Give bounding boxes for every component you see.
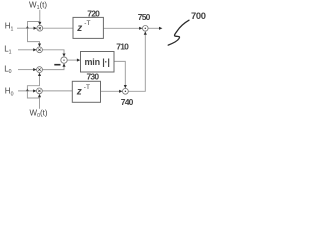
wire box 720 out to adder 750 [103, 27, 140, 29]
arrowhead into M1 left [34, 27, 37, 30]
arrowhead into subtractor bottom [62, 63, 65, 66]
wire H0 to M4 [18, 90, 34, 92]
wire box 730 out to adder 740 [101, 90, 121, 92]
arrowhead into adder 740 left [119, 90, 122, 93]
arrowhead into min box [77, 59, 80, 62]
multiplier M3 (L0 x W0) [37, 67, 43, 73]
wire M3 out to subtractor bottom [42, 66, 64, 70]
arrowhead W1 into M1 top [38, 22, 41, 25]
svg-text:750: 750 [138, 12, 151, 22]
arrowhead into M4 left [33, 89, 36, 92]
minus sign at subtractor [54, 64, 60, 66]
multiplier M2 (L1 x W1) [37, 47, 43, 53]
figure pointer squiggle 700 [168, 20, 189, 45]
min box 710 [81, 52, 115, 73]
svg-text:z: z [76, 87, 82, 98]
adder 740 [123, 88, 129, 94]
svg-text:min |·|: min |·| [85, 57, 110, 67]
svg-text:730: 730 [87, 71, 100, 81]
svg-text:-T: -T [84, 20, 90, 27]
wire L1 to M2 [18, 49, 34, 51]
wire M1 out to box 720 [43, 27, 73, 29]
arrowhead W0 into M4 bottom [38, 94, 41, 97]
wire W1 vertical into M1 [39, 10, 41, 23]
wire H1 to M1 [17, 27, 34, 29]
wire subtractor out to min box [67, 59, 78, 61]
arrowhead into M3 left [33, 68, 36, 71]
junction blob at branch crossing H1 line [26, 26, 29, 29]
wire L0 to M3 [18, 69, 34, 71]
wire 750 output [148, 27, 160, 29]
arrowhead into adder 740 top [124, 85, 127, 88]
svg-text:700: 700 [191, 10, 206, 21]
arrowhead branch into M3 bottom [38, 73, 41, 76]
subtractor node [61, 57, 67, 63]
multiplier M1 (H1 x W1) [37, 25, 43, 31]
wire W1 branch to M2 [28, 22, 40, 45]
svg-text:720: 720 [87, 9, 100, 19]
junction blob at branch crossing H0 line [26, 89, 29, 92]
svg-text:740: 740 [121, 97, 134, 107]
svg-text:710: 710 [116, 41, 129, 51]
wire W0 vertical into M4 [39, 96, 41, 108]
delay box 730 [72, 81, 100, 102]
wire M4 out to box 730 [42, 90, 72, 92]
delay box 720 [73, 17, 103, 38]
svg-text:z: z [76, 23, 82, 34]
arrowhead into subtractor top [62, 54, 65, 57]
svg-text:-T: -T [84, 84, 90, 91]
wire min box out to adder 740 top [114, 61, 125, 86]
multiplier M4 (H0 x W0) [37, 88, 43, 94]
arrowhead branch into M2 top [38, 44, 41, 47]
wire W0 branch to M3 [27, 75, 39, 98]
arrowhead into adder 750 left [139, 27, 142, 30]
wire 740 out feedback up to 750 bottom [128, 34, 145, 91]
arrowhead into M2 left [33, 48, 36, 51]
arrowhead into adder 750 bottom [144, 31, 147, 34]
wire M2 out to subtractor top [42, 50, 64, 55]
arrowhead 750 output [159, 27, 162, 30]
adder 750 [143, 26, 149, 32]
